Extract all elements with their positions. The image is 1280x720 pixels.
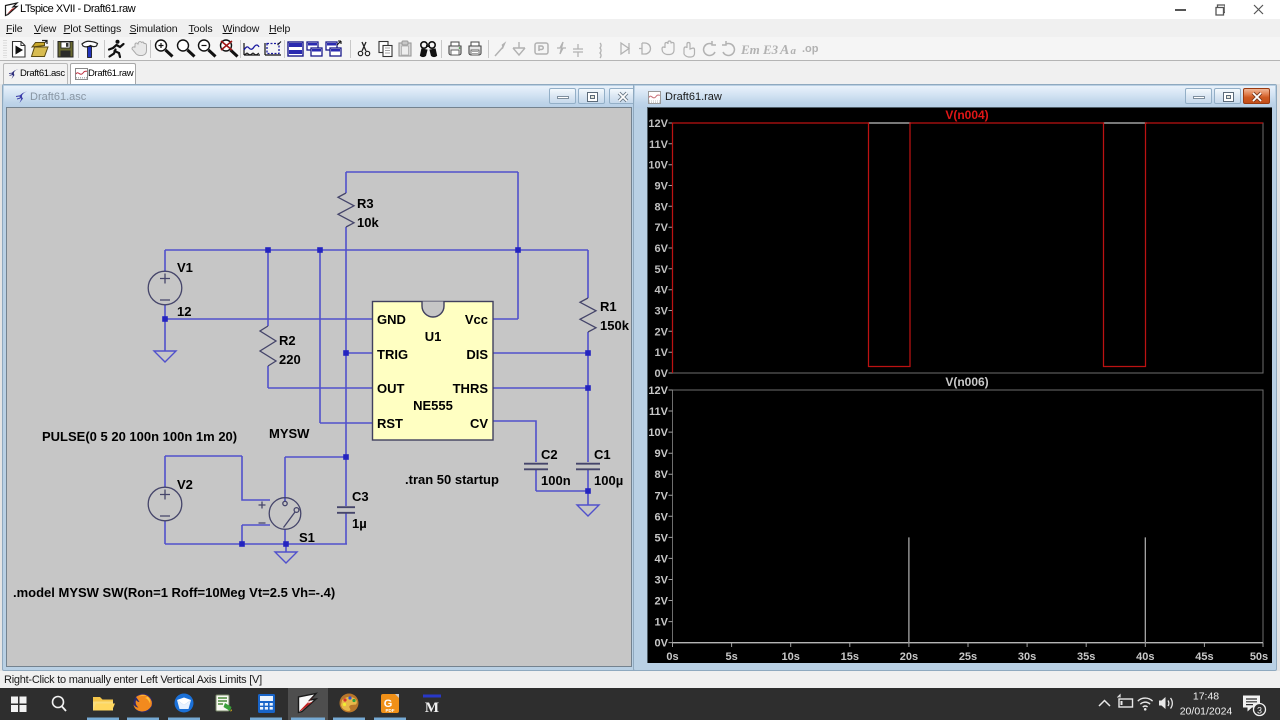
svg-text:20/01/2024: 20/01/2024 (1180, 706, 1233, 718)
wire R3 bottom to switch node (345, 227, 347, 457)
top pane y ticks (669, 123, 673, 373)
trace V(n004) (673, 123, 1264, 373)
junction TRIG node (343, 350, 349, 356)
trace V(n006) (673, 537, 1264, 642)
svg-text:V(n006): V(n006) (945, 375, 988, 389)
svg-text:OUT: OUT (377, 381, 405, 396)
svg-text:1µ: 1µ (352, 516, 367, 531)
svg-text:V2: V2 (177, 477, 193, 492)
svg-text:PULSE(0 5 20 100n 100n 1m 20): PULSE(0 5 20 100n 100n 1m 20) (42, 429, 237, 444)
resistor R2 (260, 326, 276, 366)
wire RST vertical (319, 250, 321, 423)
svg-text:12: 12 (177, 304, 191, 319)
wire R1 bottom to C1 (587, 332, 589, 462)
junction DIS node (585, 350, 591, 356)
wire switch bottom lead (284, 529, 286, 544)
resistor R3 (338, 193, 354, 227)
svg-text:3V: 3V (655, 575, 669, 587)
wire C2 bottom lead (535, 469, 537, 491)
svg-text:MYSW: MYSW (269, 426, 310, 441)
voltage source V2 (148, 487, 182, 521)
svg-text:C1: C1 (594, 447, 611, 462)
svg-text:TRIG: TRIG (377, 347, 408, 362)
wire TRIG net (346, 352, 372, 354)
wire S1 ground lead (285, 544, 287, 552)
svg-text:.op: .op (802, 43, 819, 55)
svg-text:1V: 1V (655, 617, 669, 629)
svg-text:6V: 6V (655, 511, 669, 523)
wire Vcc net (493, 318, 518, 320)
svg-text:C3: C3 (352, 489, 369, 504)
svg-text:9V: 9V (655, 181, 669, 193)
left window: schematic (Draft61.asc) (2, 84, 639, 671)
svg-text:0s: 0s (666, 651, 678, 663)
svg-text:1V: 1V (655, 347, 669, 359)
svg-text:20s: 20s (900, 651, 918, 663)
wire C1 ground lead (587, 491, 589, 505)
wire V1 bottom lead (164, 305, 166, 319)
wire switch minus down (242, 525, 270, 544)
svg-text:11V: 11V (649, 406, 669, 418)
svg-text:12V: 12V (648, 118, 668, 130)
wire R2 bottom lead (267, 366, 269, 388)
svg-text:S1: S1 (299, 530, 315, 545)
tab bar (0, 61, 1280, 84)
svg-text:DIS: DIS (466, 347, 488, 362)
voltage source V1 (148, 271, 182, 305)
top pane frame (673, 123, 1264, 373)
svg-text:4V: 4V (655, 553, 669, 565)
taskbar (0, 688, 1280, 720)
svg-text:a: a (791, 45, 797, 57)
svg-text:100µ: 100µ (594, 473, 623, 488)
svg-text:Vcc: Vcc (465, 312, 488, 327)
wire CV net (493, 421, 536, 462)
svg-text:8V: 8V (655, 469, 669, 481)
toolbar (0, 37, 1280, 60)
wire switch top lead (284, 457, 286, 501)
right window: waveform (Draft61.raw) (633, 84, 1277, 671)
junction R2 top (265, 247, 271, 253)
resistor R1 (580, 298, 596, 332)
bottom pane y ticks (669, 390, 673, 643)
svg-text:PDF: PDF (386, 708, 395, 713)
wire switch top net (285, 456, 346, 458)
svg-text:R2: R2 (279, 333, 296, 348)
junction C1 C2 ground node (585, 488, 591, 494)
capacitor C2 (524, 464, 548, 470)
svg-text:V(n004): V(n004) (945, 108, 988, 122)
svg-text:9V: 9V (655, 448, 669, 460)
svg-text:10V: 10V (648, 427, 668, 439)
svg-text:3V: 3V (655, 306, 669, 318)
svg-text:CV: CV (470, 416, 488, 431)
svg-text:15s: 15s (841, 651, 859, 663)
svg-text:0V: 0V (655, 368, 669, 380)
IC U1 NE555 (373, 302, 494, 441)
svg-text:7V: 7V (655, 490, 669, 502)
ground symbol below S1 (275, 552, 297, 563)
wire GND net to pin (165, 318, 372, 320)
wire RST net (320, 422, 372, 424)
ground symbol below C1 C2 (577, 505, 599, 516)
bottom pane frame (673, 390, 1264, 643)
wire R2 top lead (267, 250, 269, 326)
wire C3 top lead (345, 457, 347, 506)
svg-text:100n: 100n (541, 473, 571, 488)
switch S1 (259, 498, 301, 530)
svg-text:17:48: 17:48 (1193, 691, 1219, 703)
svg-text:RST: RST (377, 416, 403, 431)
svg-text:.model MYSW SW(Ron=1 Roff=10Me: .model MYSW SW(Ron=1 Roff=10Meg Vt=2.5 V… (13, 585, 335, 600)
svg-text:50s: 50s (1250, 651, 1268, 663)
wire V2 top lead (164, 456, 166, 487)
svg-text:45s: 45s (1195, 651, 1213, 663)
junction THRS node (585, 385, 591, 391)
svg-text:E3: E3 (762, 42, 779, 57)
svg-text:11V: 11V (649, 139, 669, 151)
junction V2 minus node (239, 541, 245, 547)
main title bar (0, 0, 1280, 19)
wire DIS net (493, 352, 588, 354)
junction Vcc rail (515, 247, 521, 253)
svg-text:40s: 40s (1136, 651, 1154, 663)
svg-text:0V: 0V (655, 638, 669, 650)
svg-text:THRS: THRS (453, 381, 489, 396)
svg-text:220: 220 (279, 352, 301, 367)
svg-text:3: 3 (1257, 706, 1262, 716)
svg-text:12V: 12V (648, 385, 668, 397)
svg-text:2V: 2V (655, 326, 669, 338)
svg-text:5V: 5V (655, 264, 669, 276)
svg-text:A: A (779, 43, 789, 58)
svg-text:8V: 8V (655, 201, 669, 213)
svg-text:NE555: NE555 (413, 398, 453, 413)
top pane 12V gridline (868, 122, 1147, 124)
wire R3 top net (346, 171, 518, 173)
wire V1 to ground (164, 319, 166, 351)
status bar (0, 671, 1280, 688)
wire Vcc vertical (517, 172, 519, 319)
junction RST rail (317, 247, 323, 253)
wire OUT net (268, 387, 372, 389)
svg-text:V1: V1 (177, 260, 193, 275)
svg-text:10k: 10k (357, 215, 379, 230)
svg-text:2V: 2V (655, 596, 669, 608)
wire C2 to C1 ground node (536, 490, 588, 492)
wire bottom rail (165, 543, 347, 545)
svg-text:7V: 7V (655, 222, 669, 234)
wire R1 top lead (587, 250, 589, 298)
wire THRS net (493, 387, 588, 389)
svg-text:4V: 4V (655, 285, 669, 297)
ground symbol below V1 (154, 351, 176, 362)
svg-text:R1: R1 (600, 299, 617, 314)
wire V2 top net (165, 455, 242, 457)
svg-text:25s: 25s (959, 651, 977, 663)
wire C3 bottom lead (345, 513, 347, 544)
svg-text:5s: 5s (725, 651, 737, 663)
junction V1 bottom (162, 316, 168, 322)
svg-text:10V: 10V (648, 160, 668, 172)
wire to switch plus (242, 456, 270, 500)
svg-text:GND: GND (377, 312, 406, 327)
svg-text:10s: 10s (782, 651, 800, 663)
wire V2 bottom lead (164, 521, 166, 544)
capacitor C3 (337, 507, 355, 513)
svg-text:35s: 35s (1077, 651, 1095, 663)
bottom pane x ticks (673, 643, 1264, 647)
junction switch node top (343, 454, 349, 460)
svg-text:150k: 150k (600, 318, 630, 333)
wire C1 bottom lead (587, 469, 589, 491)
wire V+ rail (165, 249, 588, 251)
svg-text:C2: C2 (541, 447, 558, 462)
wire R3 top lead (345, 172, 347, 193)
menu bar (0, 19, 1280, 37)
svg-text:5V: 5V (655, 532, 669, 544)
wire V1 top lead (164, 250, 166, 272)
svg-text:R3: R3 (357, 196, 374, 211)
svg-text:6V: 6V (655, 243, 669, 255)
svg-text:.tran 50 startup: .tran 50 startup (405, 472, 499, 487)
junction S1 ground node (283, 541, 289, 547)
svg-text:U1: U1 (425, 329, 442, 344)
svg-text:30s: 30s (1018, 651, 1036, 663)
svg-text:M: M (425, 700, 439, 716)
capacitor C1 (576, 464, 600, 470)
